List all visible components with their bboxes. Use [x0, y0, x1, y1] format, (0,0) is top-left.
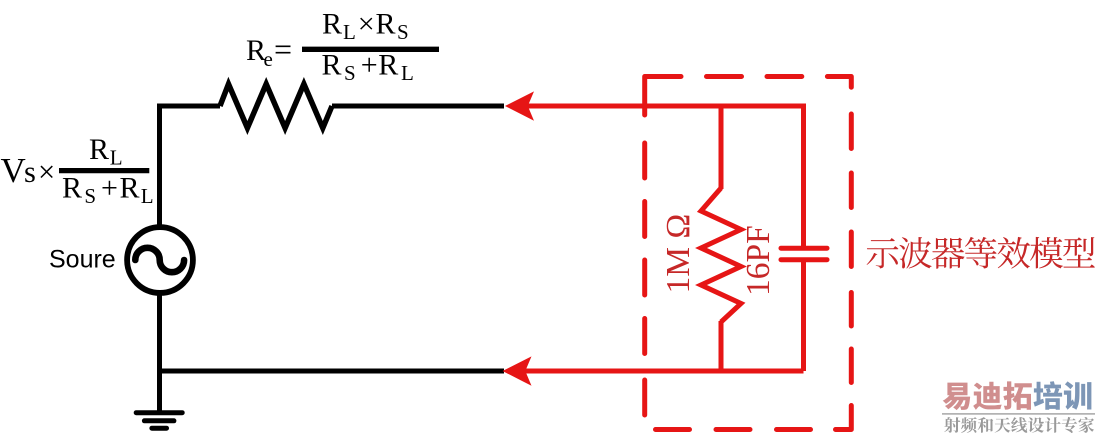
wire: vertical from source down to ground [157, 293, 162, 412]
wire: red vertical below capacitor [801, 260, 806, 371]
svg-text:s: s [24, 155, 36, 189]
svg-text:1M Ω: 1M Ω [660, 214, 697, 294]
arrow: bottom probe arrowhead [503, 356, 532, 385]
wire: red vertical branch down to 1M resistor [719, 104, 724, 190]
svg-text:L: L [110, 145, 123, 169]
svg-text:=: = [274, 31, 292, 67]
formula label: Vs x RL/(RS+RL) [1, 133, 154, 208]
svg-text:S: S [84, 184, 96, 208]
svg-text:V: V [1, 151, 26, 190]
svg-text:L: L [401, 61, 414, 85]
svg-text:R: R [89, 133, 109, 166]
watermark logo "易迪拓培训" [943, 381, 1092, 410]
svg-text:R: R [322, 8, 342, 41]
AC source circle [127, 227, 193, 293]
formula label: Re = (RL x RS)/(RS+RL) [246, 8, 414, 86]
svg-text:16PF: 16PF [740, 225, 777, 296]
watermark divider line [942, 413, 1095, 415]
svg-text:+: + [101, 172, 118, 205]
resistor Re (horizontal zigzag) [220, 84, 332, 128]
svg-text:S: S [344, 61, 356, 85]
svg-text:R: R [120, 172, 140, 205]
arrow: top probe arrowhead [505, 91, 534, 120]
svg-text:R: R [62, 172, 82, 205]
fraction bar of Vs formula [59, 168, 149, 173]
wire: bottom red probe lead [525, 369, 804, 374]
svg-text:L: L [141, 184, 154, 208]
svg-text:R: R [376, 8, 396, 41]
AC source sine wave [135, 248, 184, 272]
wire: bottom horizontal to probe point [160, 369, 505, 374]
svg-text:Soure: Soure [49, 245, 116, 273]
watermark subtitle "射频和天线设计专家" [944, 417, 1094, 433]
capacitor C 16PF plates [781, 248, 827, 260]
label "示波器等效模型" (oscilloscope equivalent model) [867, 237, 1095, 269]
wire: red vertical below 1M resistor [719, 321, 724, 374]
svg-text:+: + [361, 49, 378, 82]
fraction bar of Re formula [302, 47, 439, 52]
svg-text:S: S [397, 20, 409, 44]
wire: top red probe lead into scope model [527, 106, 804, 249]
wire: top horizontal to probe point [332, 104, 504, 109]
dashed box: oscilloscope equivalent model boundary [645, 77, 852, 430]
svg-text:R: R [378, 49, 398, 82]
svg-text:R: R [322, 49, 342, 82]
resistor 1M ohm (vertical zigzag) [701, 188, 741, 322]
svg-text:e: e [264, 47, 273, 71]
svg-text:×: × [358, 8, 375, 41]
svg-text:L: L [343, 20, 356, 44]
ground symbol [136, 413, 182, 429]
svg-text:×: × [38, 155, 55, 189]
wire: top-left corner (vertical from source up, then right) [160, 106, 221, 228]
